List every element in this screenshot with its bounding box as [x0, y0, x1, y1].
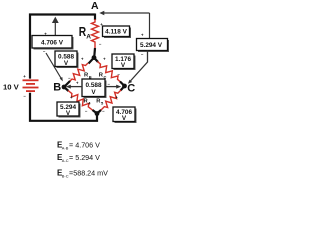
svg-text:+: +	[81, 56, 84, 61]
svg-text:−: −	[141, 52, 144, 57]
svg-text:C: C	[127, 83, 135, 95]
E_B-C - polarity (C side)	[107, 82, 110, 87]
svg-text:−: −	[117, 72, 120, 77]
svg-text:10 V: 10 V	[3, 82, 20, 91]
R_5 + polarity (C side)	[115, 95, 118, 100]
R_4 - polarity (bottom node side)	[85, 109, 88, 114]
wire C to R_5	[121, 86, 125, 91]
svg-text:+: +	[76, 81, 79, 86]
R_A + polarity	[100, 22, 103, 27]
svg-text:−: −	[85, 109, 88, 114]
svg-text:B: B	[53, 82, 61, 94]
node B junction	[62, 81, 70, 89]
R_A label	[79, 25, 92, 41]
node C junction	[120, 82, 127, 89]
svg-text:V: V	[91, 89, 96, 96]
svg-text:V: V	[122, 115, 127, 122]
svg-text:A-C: A-C	[62, 158, 69, 163]
voltmeter reading 5.294 V across R_4	[57, 102, 81, 118]
R_B label	[84, 73, 92, 80]
wire stub A to R_A	[94, 14, 96, 21]
wire M to R_C	[94, 58, 98, 62]
resistor R_4	[68, 91, 93, 111]
E_B-C arrow to node C	[105, 85, 121, 89]
E_A-B + polarity	[44, 32, 47, 37]
svg-text:= 4.706 V: = 4.706 V	[69, 141, 100, 150]
svg-text:A: A	[91, 0, 99, 12]
R_B + polarity (M side)	[81, 56, 84, 61]
E_A-C + polarity	[141, 32, 144, 37]
svg-text:R: R	[79, 25, 86, 39]
node B label	[53, 82, 61, 94]
svg-text:−: −	[43, 49, 46, 54]
R_A - polarity	[99, 42, 102, 47]
node A label	[91, 0, 99, 12]
svg-text:V: V	[121, 62, 126, 69]
R_4 label	[84, 99, 92, 106]
R_C label	[99, 73, 107, 80]
voltmeter reading 1.176 V across R_C	[112, 54, 136, 70]
value label 10 V	[3, 82, 20, 91]
voltmeter reading 0.588 V across R_B	[55, 51, 79, 68]
voltmeter reading 5.294 V (E_A-C)	[137, 39, 170, 53]
svg-text:=588.24 mV: =588.24 mV	[69, 169, 108, 178]
wire bottom rail from battery - to bottom node	[30, 93, 97, 121]
E_B-C arrow to node B	[66, 85, 82, 89]
svg-text:5.294 V: 5.294 V	[140, 42, 163, 49]
svg-text:= 5.294 V: = 5.294 V	[69, 153, 100, 162]
E_A-B measurement arrow to top rail	[52, 17, 59, 36]
wire B to R_4	[64, 87, 69, 91]
battery - polarity	[23, 93, 26, 98]
svg-text:+: +	[115, 95, 118, 100]
E_A-B - polarity	[43, 49, 46, 54]
voltmeter reading 4.118 V across R_A	[103, 26, 132, 38]
equation E_A-C = 5.294 V	[57, 153, 100, 163]
battery + polarity	[23, 74, 26, 79]
svg-text:+: +	[141, 32, 144, 37]
svg-text:A-B: A-B	[62, 145, 69, 150]
svg-text:−: −	[107, 82, 110, 87]
E_A-C measurement lead to node C	[128, 51, 148, 84]
resistor R_5	[101, 90, 122, 111]
E_A-B measurement lead to node B	[46, 53, 63, 81]
voltmeter reading 0.588 V between B and C	[82, 79, 107, 98]
E_B-C + polarity (B side)	[76, 81, 79, 86]
battery V1 10 V	[23, 80, 39, 91]
svg-text:B-C: B-C	[62, 173, 69, 178]
node M junction (center of Y)	[92, 48, 97, 60]
svg-text:−: −	[23, 93, 26, 98]
R_5 - polarity (bottom node side)	[102, 109, 105, 114]
resistor R_A	[92, 19, 99, 49]
voltmeter reading 4.706 V across R_5	[113, 107, 137, 123]
wire M to R_B	[89, 58, 95, 64]
wire top rail from battery + to node A	[30, 15, 95, 79]
E_A-C - polarity	[141, 52, 144, 57]
svg-text:+: +	[23, 74, 26, 79]
bottom node junction M2	[93, 110, 102, 116]
voltmeter reading 4.706 V (E_A-B)	[32, 36, 74, 50]
svg-text:4.706 V: 4.706 V	[41, 39, 64, 46]
R_B - polarity (B side)	[68, 75, 71, 80]
svg-text:−: −	[99, 42, 102, 47]
svg-text:+: +	[103, 56, 106, 61]
svg-text:4.118 V: 4.118 V	[105, 29, 127, 36]
svg-text:V: V	[64, 60, 69, 67]
svg-text:A: A	[86, 33, 91, 40]
R_C - polarity (C side)	[117, 72, 120, 77]
R_5 label	[96, 99, 104, 106]
svg-text:4: 4	[88, 100, 91, 105]
svg-text:0.588: 0.588	[86, 82, 102, 89]
svg-text:5: 5	[101, 100, 104, 105]
equation E_A-B = 4.706 V	[57, 141, 100, 151]
E_A-C measurement line from node A	[99, 11, 149, 39]
R_C + polarity (M side)	[103, 56, 106, 61]
resistor R_C	[98, 62, 121, 83]
svg-text:−: −	[102, 109, 105, 114]
R_4 + polarity (B side)	[70, 95, 73, 100]
node C label	[127, 83, 135, 95]
equation E_B-C = 588.24 mV	[57, 169, 108, 179]
resistor R_B	[70, 63, 89, 82]
svg-text:V: V	[66, 110, 71, 117]
